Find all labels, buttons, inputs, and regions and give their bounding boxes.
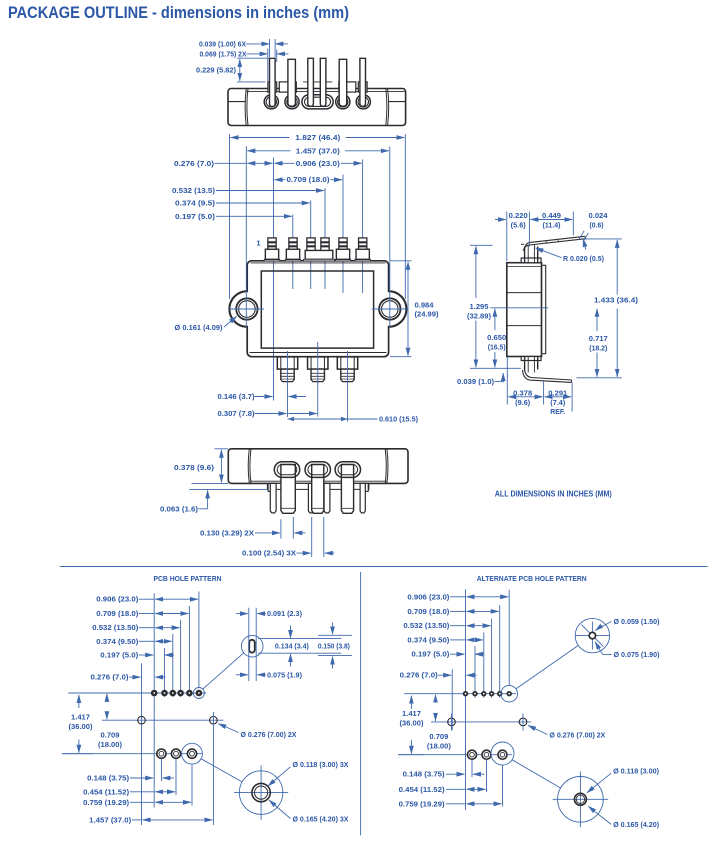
right pattern: detail circle on bottom hole 3	[491, 742, 514, 765]
svg-text:Ø 0.165 (4.20): Ø 0.165 (4.20)	[613, 822, 659, 829]
svg-text:0.276 (7.0): 0.276 (7.0)	[91, 675, 129, 682]
svg-text:(5.6): (5.6)	[511, 223, 526, 230]
svg-text:1.433 (36.4): 1.433 (36.4)	[594, 298, 638, 305]
svg-text:0.378 (9.6): 0.378 (9.6)	[174, 465, 214, 472]
svg-text:0.148 (3.75): 0.148 (3.75)	[403, 772, 445, 779]
left pattern: dimension 0.148 (3.75)	[87, 776, 174, 783]
svg-text:PACKAGE OUTLINE - dimensions i: PACKAGE OUTLINE - dimensions in inches (…	[8, 3, 349, 22]
svg-text:(18.00): (18.00)	[98, 742, 122, 749]
side view: bottom formed lead	[523, 370, 572, 383]
bottom view: side stub right	[364, 483, 368, 491]
left pattern: detail circle on hole 6	[193, 688, 204, 699]
right pattern: mount hole left	[448, 718, 456, 726]
front view: bottom pin 2	[308, 357, 328, 382]
mounting hole crosshair left	[229, 308, 264, 310]
right pattern: dimension 0.906 (23.0)	[407, 594, 508, 601]
top edge view: pin 5	[339, 59, 356, 106]
right pattern: leader to big detail	[512, 760, 561, 788]
svg-text:0.039 (1.00) 6X: 0.039 (1.00) 6X	[199, 41, 246, 48]
svg-text:Ø 0.165 (4.20) 3X: Ø 0.165 (4.20) 3X	[293, 816, 349, 823]
right pattern: detail circle on hole 6	[501, 685, 518, 702]
left pattern: slot hole	[249, 640, 255, 653]
right pattern: leader diameter 0.118	[587, 769, 659, 793]
bottom view: pad 2	[305, 462, 330, 478]
svg-text:0.134 (3.4): 0.134 (3.4)	[275, 644, 309, 651]
leader diameter 0.161 (4.09)	[175, 316, 237, 332]
svg-text:0.276 (7.0): 0.276 (7.0)	[174, 161, 214, 168]
dimension 0.307 (7.8)	[218, 411, 317, 418]
dimension 0.709 (18.0)	[275, 177, 343, 184]
right pattern: bottom hole 3	[498, 750, 507, 759]
svg-text:0.130 (3.29) 2X: 0.130 (3.29) 2X	[200, 530, 254, 537]
dimension 1.827 (46.4)	[231, 135, 405, 142]
left pattern: bottom hole column 3	[191, 765, 193, 806]
svg-text:(9.6): (9.6)	[515, 400, 530, 407]
extension line bottom pin column 3	[347, 351, 349, 422]
right pattern: bottom hole 1	[468, 750, 477, 759]
svg-text:0.276 (7.0): 0.276 (7.0)	[400, 673, 438, 680]
right pattern: hole column 2	[474, 646, 476, 698]
top edge view: package body	[228, 89, 406, 126]
front view: pin 5	[335, 238, 350, 261]
svg-text:Ø 0.118 (3.00) 3X: Ø 0.118 (3.00) 3X	[293, 762, 349, 769]
dimension 0.024 (0.6)	[579, 213, 608, 249]
dimension 0.229 (5.82)	[196, 58, 269, 82]
left pattern: dimension 0.454 (11.52)	[83, 789, 175, 796]
top edge view: pin 6	[358, 58, 367, 106]
left pattern: dimension 0.374 (9.50)	[96, 639, 172, 646]
front view: bottom pin 3	[337, 357, 357, 382]
svg-text:0.069 (1.75) 2X: 0.069 (1.75) 2X	[200, 51, 247, 58]
extension line pin column 5	[342, 175, 344, 294]
extension line pin column 2	[292, 215, 294, 290]
right pattern: hole column 1	[465, 589, 467, 810]
right pattern: dimension 0.197 (5.0)	[411, 652, 484, 659]
bottom view: narrow pin 1	[270, 483, 276, 513]
left pattern: big detail circle	[234, 766, 288, 820]
extension line overall width right	[404, 134, 406, 299]
svg-text:0.374 (9.5): 0.374 (9.5)	[175, 201, 215, 208]
svg-text:0.307 (7.8): 0.307 (7.8)	[218, 411, 255, 418]
right pattern: bottom hole 2	[482, 750, 491, 759]
left pattern: dimension 0.075 (1.9)	[236, 672, 302, 679]
left pattern: bottom hole column 1	[160, 759, 162, 781]
svg-text:0.906 (23.0): 0.906 (23.0)	[96, 597, 138, 604]
front view: pin 2	[285, 238, 300, 261]
svg-text:Ø 0.276 (7.00) 2X: Ø 0.276 (7.00) 2X	[241, 732, 297, 739]
svg-text:(18.2): (18.2)	[589, 346, 607, 353]
right pattern: pin holes row line	[404, 693, 516, 695]
dimension 0.039 (1.00) 6X	[199, 39, 288, 57]
svg-text:0.229 (5.82): 0.229 (5.82)	[196, 68, 236, 75]
left pattern: dimension 0.709 (18.00)	[98, 694, 122, 749]
dimension 0.984 (24.99)	[390, 261, 439, 357]
svg-text:0.906 (23.0): 0.906 (23.0)	[407, 594, 449, 601]
left pattern: leader diameter 0.118 3X	[268, 762, 349, 786]
left pattern: dimension 0.276 (7.0)	[91, 675, 166, 682]
extension line mounting hole right (upper)	[389, 147, 391, 263]
svg-text:1.295: 1.295	[470, 304, 489, 311]
left pattern: dimension 0.709 (18.0)	[96, 611, 188, 618]
right pattern: hole column 3	[483, 633, 485, 698]
right pattern: pin hole 6	[507, 692, 511, 696]
dimension 0.449 (11.4)	[530, 212, 573, 236]
bottom view: pad 3	[335, 462, 360, 478]
svg-text:0.717: 0.717	[589, 336, 608, 343]
svg-text:0.650: 0.650	[487, 335, 506, 342]
left pattern: mount hole right	[210, 716, 218, 724]
svg-text:0.709 (18.0): 0.709 (18.0)	[407, 609, 449, 616]
dimension 0.291 (7.4) REF	[545, 383, 573, 417]
svg-text:0.532 (13.50): 0.532 (13.50)	[92, 625, 138, 632]
right pattern: leader diameter 0.276 2X	[528, 725, 606, 739]
right pattern: mount hole right	[519, 718, 527, 726]
dimension 0.717 (18.2)	[589, 309, 608, 377]
right pattern: pin hole 2	[473, 692, 477, 696]
left pattern: leader to big detail	[201, 759, 242, 782]
front view: right mounting ear	[379, 291, 406, 327]
right pattern: dimension 0.759 (19.29)	[399, 801, 502, 808]
svg-text:0.610 (15.5): 0.610 (15.5)	[379, 417, 418, 424]
svg-text:0.220: 0.220	[509, 213, 528, 220]
right pattern: mount hole column left	[451, 669, 453, 730]
front view: pin 6	[355, 238, 370, 261]
extension line bottom pin column 1	[287, 351, 289, 417]
right pattern: dimension 0.276 (7.0)	[400, 673, 477, 680]
bottom view: narrow pin 3	[308, 483, 313, 513]
bottom view: wide lead 1	[281, 465, 295, 514]
dimension 0.220 (5.6)	[495, 212, 530, 261]
left pattern: pin holes row line	[68, 692, 206, 694]
svg-text:0.532 (13.5): 0.532 (13.5)	[172, 188, 215, 195]
right pattern: hole column 5	[499, 605, 501, 698]
svg-text:0.709 (18.0): 0.709 (18.0)	[96, 611, 138, 618]
left pattern: dimension 1.457 (37.0)	[89, 817, 212, 824]
left pattern: hole column 4	[180, 620, 182, 697]
right pattern: dimension 0.374 (9.50)	[407, 637, 482, 644]
svg-text:0.759 (19.29): 0.759 (19.29)	[83, 800, 129, 807]
right pattern: leader diameter 0.075	[595, 642, 660, 659]
svg-text:1: 1	[256, 239, 260, 248]
svg-text:0.709 (18.0): 0.709 (18.0)	[287, 177, 330, 184]
front view: bottom pin 1	[277, 357, 297, 382]
left pattern: dimension 0.906 (23.0)	[96, 597, 198, 604]
svg-text:ALTERNATE PCB HOLE PATTERN: ALTERNATE PCB HOLE PATTERN	[477, 574, 587, 583]
right pattern: bottom hole column 3	[502, 766, 504, 807]
right pattern: dimension 0.532 (13.50)	[403, 623, 490, 630]
left pattern: leader to slot detail	[203, 653, 244, 689]
front view: left mounting ear	[229, 291, 257, 327]
left pattern: mount hole column left	[141, 663, 143, 825]
right pattern: pin hole 4	[490, 692, 494, 696]
dimension 0.906 (23.0)	[275, 161, 362, 168]
left pattern: slot detail circle	[241, 635, 263, 657]
svg-text:ALL DIMENSIONS IN INCHES (MM): ALL DIMENSIONS IN INCHES (MM)	[495, 490, 612, 499]
extension line overall width left	[229, 134, 231, 299]
left pattern: leader diameter 0.276 2X	[218, 724, 297, 740]
dimension 0.276 (7.0)	[174, 161, 273, 168]
svg-text:Ø 0.276 (7.00) 2X: Ø 0.276 (7.00) 2X	[549, 732, 605, 739]
right pattern: leader to hole detail	[516, 645, 578, 689]
left pattern: dimension 1.417 (36.00)	[62, 695, 93, 754]
top edge view: pin 1	[268, 58, 277, 106]
svg-text:0.454 (11.52): 0.454 (11.52)	[83, 789, 129, 796]
svg-text:1.457 (37.0): 1.457 (37.0)	[296, 148, 340, 155]
extension line bottom pin column 2	[317, 342, 319, 417]
dimension 0.197 (5.0)	[175, 214, 292, 221]
svg-text:0.374 (9.50): 0.374 (9.50)	[407, 637, 449, 644]
front view: pin 4	[321, 238, 329, 251]
svg-text:(18.00): (18.00)	[427, 744, 451, 751]
side view: top formed lead	[523, 236, 585, 250]
svg-text:0.454 (11.52): 0.454 (11.52)	[399, 787, 445, 794]
left pattern: hole column 5	[188, 606, 190, 697]
svg-text:0.024: 0.024	[589, 213, 608, 220]
right pattern: dimension 0.709 (18.0)	[407, 609, 498, 616]
left pattern: hole column 6	[198, 592, 200, 688]
top edge view: pins 3 and 4	[308, 58, 314, 106]
mounting hole crosshair right	[372, 308, 407, 310]
svg-text:0.709: 0.709	[101, 733, 120, 740]
dimension 0.610 (15.5)	[288, 417, 419, 424]
front view: package body	[247, 261, 388, 357]
right pattern: bottom hole column 1	[471, 760, 473, 777]
right pattern: hole column 4	[491, 619, 493, 698]
svg-text:(36.00): (36.00)	[400, 721, 424, 728]
svg-text:0.449: 0.449	[542, 213, 561, 220]
svg-text:1.417: 1.417	[402, 711, 421, 718]
left pattern: hole column 2	[164, 648, 166, 697]
top edge view: pin 2	[279, 59, 296, 106]
left pattern: slot length extension lines	[258, 639, 341, 654]
right pattern: dimension 1.417 (36.00)	[398, 696, 424, 755]
dimension 0.378 (9.6) side	[507, 357, 543, 407]
bottom view: wide lead 3	[341, 465, 353, 514]
left pattern: dimension 0.134 (3.4)	[275, 626, 309, 667]
svg-text:Ø 0.161 (4.09): Ø 0.161 (4.09)	[175, 325, 223, 332]
right pattern: hole detail circle	[575, 618, 609, 652]
left pattern: mount hole left	[138, 716, 146, 724]
right pattern: big detail circle	[553, 772, 609, 828]
left pattern: pin hole 2	[162, 691, 166, 695]
extension line pin column 3	[310, 201, 312, 290]
svg-text:0.100 (2.54) 3X: 0.100 (2.54) 3X	[242, 551, 296, 558]
left pattern: pin hole 4	[179, 691, 183, 695]
section separator line	[60, 566, 708, 568]
left pattern: pin hole 1	[152, 691, 156, 695]
svg-text:0.378: 0.378	[513, 390, 532, 397]
right pattern: hole column 6	[508, 590, 510, 686]
bottom view: standoff strip	[267, 483, 369, 489]
svg-text:Ø 0.059 (1.50): Ø 0.059 (1.50)	[614, 619, 660, 626]
svg-text:0.197 (5.0): 0.197 (5.0)	[100, 653, 138, 660]
svg-text:0.146 (3.7): 0.146 (3.7)	[218, 394, 255, 401]
svg-text:0.759 (19.29): 0.759 (19.29)	[399, 801, 445, 808]
right pattern: leader diameter 0.165	[588, 806, 659, 829]
svg-text:R 0.020 (0.5): R 0.020 (0.5)	[563, 256, 604, 263]
bottom view: wide lead 2	[312, 465, 324, 514]
right pattern: pin hole 3	[482, 692, 486, 696]
svg-text:0.291: 0.291	[548, 390, 567, 397]
right pattern: bottom holes row line	[398, 754, 512, 756]
right pattern: mount hole crosshairs	[452, 714, 524, 731]
dimension 1.433 (36.4)	[577, 239, 639, 378]
right pattern: leader diameter 0.059	[595, 619, 659, 630]
svg-text:1.417: 1.417	[71, 715, 90, 722]
right pattern: pin hole 5	[498, 692, 502, 696]
right pattern: bottom hole column 2	[486, 760, 488, 792]
extension line pin column 6	[362, 160, 364, 294]
svg-text:0.906 (23.0): 0.906 (23.0)	[296, 161, 340, 168]
left pattern: bottom hole 3	[187, 749, 196, 758]
left pattern: hole column 3	[172, 634, 174, 697]
svg-text:1.457 (37.0): 1.457 (37.0)	[89, 817, 131, 824]
dimension 0.100 (2.54) 3X	[242, 517, 335, 558]
left pattern: pin hole 5	[187, 691, 191, 695]
dimension 0.130 (3.29) 2X	[200, 517, 306, 539]
svg-text:0.091 (2.3): 0.091 (2.3)	[267, 611, 302, 618]
left pattern: bottom hole column 2	[175, 759, 177, 795]
left pattern: dimension 0.532 (13.50)	[92, 625, 179, 632]
left pattern: dimension 0.150 (3.8)	[318, 623, 352, 669]
svg-text:Ø 0.075 (1.90): Ø 0.075 (1.90)	[614, 652, 660, 659]
svg-text:Ø 0.118 (3.00): Ø 0.118 (3.00)	[613, 769, 659, 776]
front view: pins 3-4 shared boss	[305, 250, 333, 259]
top edge view: pin pad circles	[264, 82, 370, 109]
svg-text:0.075 (1.9): 0.075 (1.9)	[267, 672, 302, 679]
extension line mounting hole left (upper)	[245, 146, 247, 262]
left pattern: pin hole 3	[171, 691, 175, 695]
left pattern: dimension 0.759 (19.29)	[83, 800, 191, 807]
left pattern: pin hole 6	[197, 691, 201, 695]
svg-text:(24.99): (24.99)	[415, 312, 439, 319]
extension line pin column 1	[273, 158, 275, 401]
left pattern: mount hole column right	[212, 712, 214, 825]
left pattern: bottom hole 1	[157, 749, 166, 758]
leader R 0.020 (0.5)	[536, 248, 605, 263]
svg-text:(7.4): (7.4)	[550, 400, 565, 407]
dimension 0.146 (3.7)	[218, 394, 307, 401]
dimension 0.532 (13.5)	[172, 188, 324, 195]
side view: top pin stub	[521, 244, 541, 262]
left pattern: dimension 0.091 (2.3)	[236, 611, 302, 618]
svg-text:(36.00): (36.00)	[69, 724, 93, 731]
svg-text:(0.6): (0.6)	[590, 223, 604, 230]
left pattern: detail circle on bottom hole 3	[182, 743, 203, 764]
dimension 0.378 (9.6) bottom view	[174, 449, 228, 484]
ear clearance patches	[245, 292, 249, 326]
section divider line	[360, 572, 362, 836]
front view: pin 1	[264, 238, 279, 261]
left pattern: leader diameter 0.165 3X	[269, 800, 349, 823]
svg-text:0.063 (1.6): 0.063 (1.6)	[160, 506, 198, 513]
bottom view: narrow pin 6	[360, 483, 365, 513]
bottom view: package body	[228, 449, 408, 484]
svg-text:0.197 (5.0): 0.197 (5.0)	[411, 652, 449, 659]
dimension 0.039 (1.0) standoff	[457, 373, 503, 386]
dimension 0.650 (16.5)	[487, 308, 548, 368]
svg-text:(32.89): (32.89)	[467, 314, 491, 321]
left pattern: slot extension lines	[249, 608, 256, 681]
left pattern: bottom holes row line	[62, 753, 202, 755]
right pattern: dimension 0.148 (3.75)	[403, 772, 485, 779]
dimension 1.457 (37.0)	[247, 148, 388, 155]
left pattern: hole column 1	[153, 593, 155, 807]
svg-text:0.532 (13.50): 0.532 (13.50)	[403, 623, 449, 630]
right pattern: mount holes row line	[431, 721, 531, 723]
svg-text:0.374 (9.50): 0.374 (9.50)	[96, 639, 138, 646]
dimension 0.069 (1.75) 2X	[200, 49, 289, 82]
left pattern: dimension 0.197 (5.0)	[100, 653, 174, 660]
svg-text:0.039 (1.0): 0.039 (1.0)	[457, 379, 494, 386]
svg-text:(16.5): (16.5)	[488, 345, 506, 352]
left pattern: mount holes row line	[102, 719, 223, 721]
right pattern: pin hole 1	[464, 692, 468, 696]
right pattern: dimension 0.454 (11.52)	[399, 787, 486, 794]
bottom view: side stub left	[268, 483, 272, 491]
svg-text:1.827 (46.4): 1.827 (46.4)	[295, 135, 340, 142]
seating plane line	[470, 367, 521, 369]
svg-text:REF.: REF.	[550, 409, 565, 416]
left pattern: bottom hole 2	[171, 749, 180, 758]
top edge view: center stadium pad	[302, 95, 333, 109]
right pattern: dimension 0.709 (18.00)	[427, 695, 451, 751]
svg-text:0.709: 0.709	[429, 734, 448, 741]
side view: bottom pin stub	[521, 357, 541, 373]
front view: pin 3	[307, 238, 315, 251]
svg-text:0.150 (3.8): 0.150 (3.8)	[318, 644, 350, 651]
dimension 0.063 (1.6)	[160, 489, 267, 513]
extension line pin column 4	[324, 188, 326, 289]
svg-text:0.197 (5.0): 0.197 (5.0)	[175, 214, 215, 221]
svg-text:(11.4): (11.4)	[543, 223, 561, 230]
svg-text:PCB HOLE PATTERN: PCB HOLE PATTERN	[154, 574, 222, 583]
dimension 1.295 (32.89)	[467, 245, 493, 367]
svg-text:0.148 (3.75): 0.148 (3.75)	[87, 776, 129, 783]
side view: package body	[507, 263, 546, 357]
bottom view: pad 1	[274, 462, 299, 478]
dimension 0.374 (9.5)	[175, 201, 310, 208]
bottom view: narrow pin 4	[324, 483, 330, 513]
svg-text:0.984: 0.984	[415, 302, 434, 309]
